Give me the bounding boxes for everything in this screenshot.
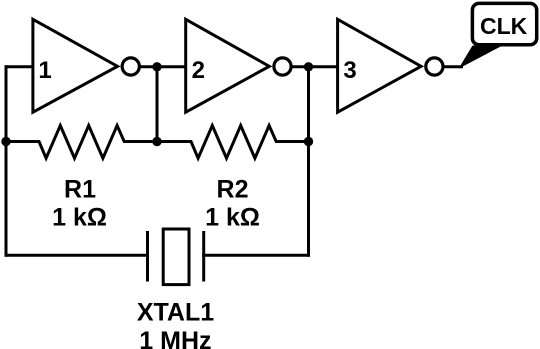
wire: left vertical bus [5,67,8,256]
inverter U2 triangle [186,19,270,112]
junction dot: node A (inv1 out / inv2 in) [152,62,161,71]
svg-text:1 MHz: 1 MHz [139,327,211,349]
wire: top feedback stub into inverter 1 input [6,65,33,68]
wire: branch from node A down to resistor junction [156,67,159,142]
CLK flag pointer [459,46,503,69]
svg-text:1: 1 [38,57,51,84]
inverter U3 output bubble [426,58,443,75]
svg-text:1 kΩ: 1 kΩ [205,204,260,232]
crystal XTAL1 left plate [146,231,149,282]
wire: inverter 1 output to inverter 2 input [139,65,186,68]
junction dot: R2 / right bus [304,137,313,146]
svg-text:XTAL1: XTAL1 [137,299,214,327]
inverter U1 output bubble [122,58,139,75]
wire: right vertical bus [307,67,310,256]
junction dot: left bus / R1 [1,137,10,146]
svg-text:R2: R2 [217,175,249,203]
wire: inverter 2 output to inverter 3 input [291,65,338,68]
inverter U3 triangle [338,19,422,112]
inverter U2 output bubble [274,58,291,75]
wire: bottom-left horizontal to crystal [6,254,148,257]
crystal XTAL1 right plate [202,231,205,282]
junction dot: node B (inv2 out / inv3 in) [304,62,313,71]
net label CLK box [472,3,536,44]
resistor R2 [157,126,309,159]
wire: bottom-right horizontal from crystal [204,254,309,257]
wire: inverter 3 output to CLK flag [444,65,462,68]
crystal XTAL1 body [163,229,189,285]
svg-text:2: 2 [192,57,205,84]
svg-text:R1: R1 [64,175,96,203]
svg-text:3: 3 [343,57,356,84]
junction dot: R1/R2 midpoint [152,137,161,146]
resistor R1 [6,126,157,159]
svg-text:CLK: CLK [480,13,528,39]
svg-text:1 kΩ: 1 kΩ [52,204,107,232]
inverter U1 triangle [33,19,118,112]
